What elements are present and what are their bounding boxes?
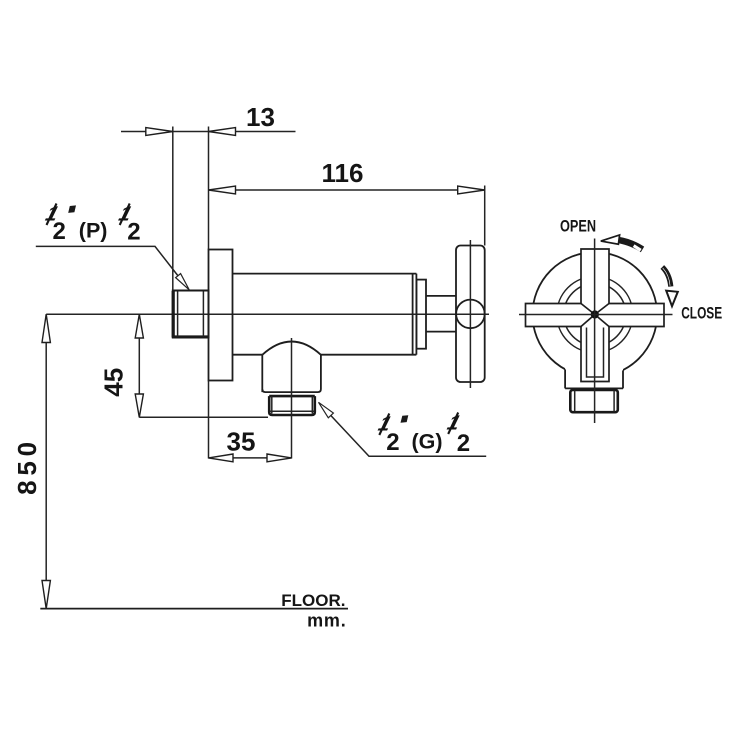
dimension 116 (209, 158, 485, 246)
side view outlet nut (570, 390, 618, 412)
leader G (319, 402, 487, 456)
dimension 45 (99, 314, 269, 417)
leader P (36, 246, 189, 289)
svg-text:FLOOR.: FLOOR. (281, 591, 345, 610)
side view outlet shoulder (565, 368, 623, 388)
side view horizontal centerline (519, 314, 673, 316)
side view flange circle (533, 252, 658, 377)
svg-text:2: 2 (127, 219, 140, 246)
floor line (40, 608, 348, 610)
dimension 35 (209, 381, 292, 462)
mitre diagonals (581, 304, 609, 327)
svg-text:2: 2 (457, 430, 470, 457)
svg-text:45: 45 (99, 368, 129, 397)
bonnet (416, 280, 426, 349)
stem (426, 296, 456, 332)
side view vertical centerline (594, 239, 596, 424)
svg-text:mm.: mm. (307, 611, 346, 631)
svg-text:116: 116 (322, 158, 364, 188)
OPEN arrow (601, 235, 644, 252)
floor label (281, 591, 346, 631)
inlet hex nut (173, 291, 209, 338)
main axis centerline (46, 313, 489, 315)
svg-text:(P): (P) (79, 219, 108, 243)
handle bar front view (456, 246, 485, 383)
svg-text:2: 2 (53, 218, 66, 245)
outlet nut (269, 396, 315, 415)
svg-text:13: 13 (246, 102, 275, 132)
cross handle side view (526, 249, 665, 382)
handle center dot (591, 310, 599, 318)
handle hub circle (456, 300, 485, 329)
label 1/2"(G)1/2 (374, 411, 470, 457)
svg-text:850: 850 (12, 437, 42, 495)
valve body cylinder (233, 274, 417, 355)
svg-text:CLOSE: CLOSE (681, 305, 722, 324)
label 1/2"(P)1/2 (41, 202, 140, 246)
svg-text:(G): (G) (412, 430, 443, 454)
side view inner circle B (564, 284, 626, 346)
outlet dome intersection (262, 342, 321, 393)
CLOSE arrow (662, 267, 678, 306)
handle vertical centerline (469, 240, 471, 388)
handle far-side U detail (587, 328, 604, 378)
svg-text:35: 35 (227, 427, 256, 457)
side view inner circle A (557, 277, 633, 353)
svg-text:OPEN: OPEN (560, 217, 596, 236)
outlet centerline (291, 338, 293, 459)
dimension 13 (121, 102, 296, 291)
svg-text:2: 2 (386, 429, 399, 456)
dimension 850 (12, 314, 50, 608)
wall flange (209, 250, 233, 381)
